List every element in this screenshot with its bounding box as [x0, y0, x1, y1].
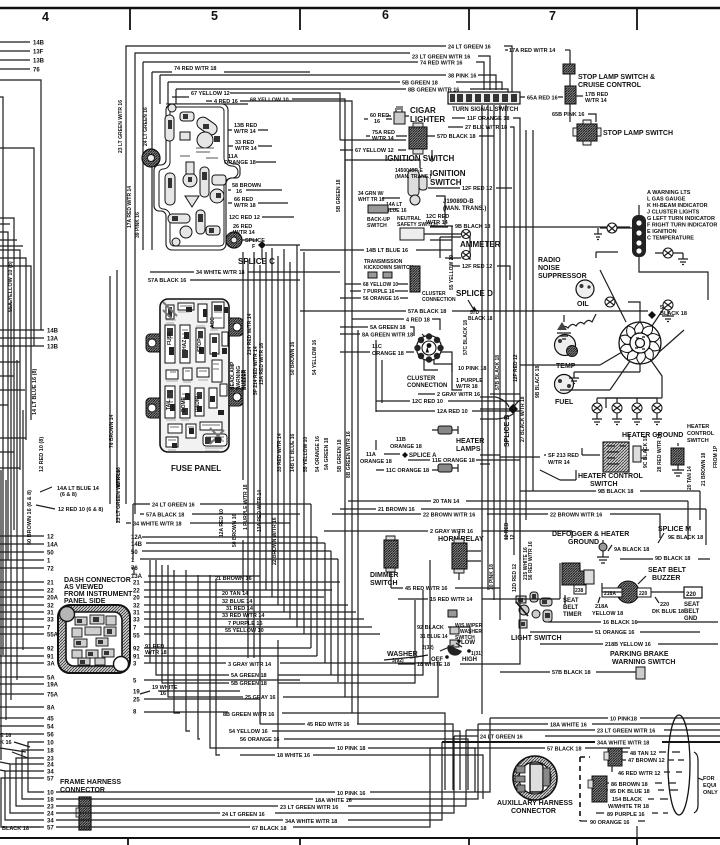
- bulbs bottom row: [592, 398, 662, 425]
- wire stub 13B: [0, 59, 30, 61]
- svg-text:220: 220: [639, 591, 648, 597]
- svg-text:220: 220: [686, 592, 697, 598]
- svg-text:54 ORANGE 16: 54 ORANGE 16: [315, 436, 321, 472]
- svg-text:SWITCH: SWITCH: [367, 223, 387, 229]
- svg-text:K 16: K 16: [0, 740, 12, 746]
- svg-text:11C: 11C: [372, 344, 382, 350]
- wire 34A WHITE WTR 18 lower: [56, 742, 442, 820]
- wire rows mid: [0, 362, 26, 468]
- svg-text:24: 24: [47, 763, 54, 769]
- svg-text:BLACK 18: BLACK 18: [2, 826, 29, 832]
- svg-text:SWITCH: SWITCH: [430, 178, 462, 187]
- defogger ground symbol: [599, 543, 607, 551]
- lower L set: [28, 742, 44, 792]
- verticals left of fuse panel: [110, 270, 117, 523]
- svg-text:32: 32: [47, 604, 54, 610]
- svg-text:L GAS GAUGE: L GAS GAUGE: [647, 197, 686, 203]
- svg-text:7: 7: [549, 9, 556, 23]
- svg-text:67 YELLOW 12: 67 YELLOW 12: [191, 91, 230, 97]
- svg-text:11B: 11B: [396, 437, 406, 443]
- svg-text:54: 54: [47, 725, 54, 731]
- svg-text:BUZZER: BUZZER: [652, 575, 680, 582]
- svg-text:50 BROWN 16 (6 & 8): 50 BROWN 16 (6 & 8): [27, 490, 33, 545]
- svg-text:16: 16: [160, 691, 166, 697]
- svg-text:9E BLACK 18: 9E BLACK 18: [668, 535, 703, 541]
- svg-text:51 ORANGE 16: 51 ORANGE 16: [595, 630, 634, 636]
- svg-text:5B GREEN 18: 5B GREEN 18: [231, 681, 267, 687]
- svg-text:RADIO: RADIO: [195, 396, 201, 412]
- svg-text:65A RED 16: 65A RED 16: [527, 96, 558, 102]
- svg-text:56 ORANGE 16: 56 ORANGE 16: [240, 737, 279, 743]
- svg-text:33: 33: [133, 618, 140, 624]
- svg-text:W/TR 14: W/TR 14: [548, 460, 571, 466]
- connector hatched: [410, 266, 420, 292]
- frame harness connector: [79, 797, 91, 830]
- svg-text:13A: 13A: [131, 574, 143, 580]
- svg-text:56 RED W/TR 16: 56 RED W/TR 16: [528, 541, 534, 580]
- svg-text:27 BLACK W/TR 18: 27 BLACK W/TR 18: [520, 396, 526, 442]
- light switch: [516, 592, 552, 628]
- bulb mid: [605, 297, 615, 307]
- ignition wires: [340, 140, 452, 240]
- svg-text:CONNECTION: CONNECTION: [422, 297, 456, 303]
- svg-text:13A: 13A: [47, 337, 59, 343]
- svg-text:HEATER: HEATER: [456, 438, 484, 445]
- seat belt timer body: [562, 563, 586, 585]
- svg-text:55A: 55A: [47, 633, 59, 639]
- svg-text:20 TAN 14: 20 TAN 14: [433, 499, 460, 505]
- svg-text:18A WHITE 16: 18A WHITE 16: [315, 798, 352, 804]
- svg-text:5A GREEN 18: 5A GREEN 18: [324, 437, 330, 470]
- wire 34 WHITE WTR 18 mid: [126, 522, 290, 524]
- dash rows to central bundle: [131, 537, 338, 576]
- svg-text:23 LT GREEN W/TR 16: 23 LT GREEN W/TR 16: [116, 470, 122, 523]
- neutral safety switch: [400, 228, 424, 240]
- svg-text:23 LT GREEN W/TR 16: 23 LT GREEN W/TR 16: [118, 100, 124, 153]
- harness loop ellipse: [668, 715, 690, 815]
- svg-text:SWITCH: SWITCH: [590, 481, 618, 488]
- cigar lighter symbol: [394, 112, 405, 124]
- svg-text:20 TAN 14: 20 TAN 14: [687, 466, 693, 490]
- wire stub 13B: [0, 345, 44, 347]
- svg-text:(MAN. TRANS.): (MAN. TRANS.): [443, 206, 486, 212]
- svg-text:SUPPRESSOR: SUPPRESSOR: [538, 273, 587, 280]
- svg-text:LOW: LOW: [461, 640, 475, 646]
- svg-text:55 YELLOW 10: 55 YELLOW 10: [225, 628, 264, 634]
- svg-text:SPLICE M: SPLICE M: [658, 526, 691, 533]
- svg-text:5: 5: [211, 9, 218, 23]
- svg-text:YELLOW 18: YELLOW 18: [592, 611, 623, 617]
- wire 38 PINK 16: [160, 75, 496, 104]
- svg-text:91: 91: [47, 655, 54, 661]
- connector small: [448, 610, 457, 617]
- svg-text:13B: 13B: [47, 345, 59, 351]
- svg-text:3A: 3A: [47, 662, 55, 668]
- svg-text:85 DK BLUE 18: 85 DK BLUE 18: [610, 789, 650, 795]
- heater lamp 2: [438, 464, 452, 472]
- svg-text:54 YELLOW 16: 54 YELLOW 16: [312, 340, 318, 375]
- svg-text:90 ORANGE 16: 90 ORANGE 16: [590, 820, 629, 826]
- svg-text:AS VIEWED: AS VIEWED: [64, 584, 103, 591]
- heater lamp 11B: [438, 426, 452, 434]
- svg-text:57A BLACK 18: 57A BLACK 18: [146, 513, 184, 519]
- wire stub 14B: [0, 41, 30, 43]
- svg-text:19A: 19A: [47, 683, 59, 689]
- svg-text:5A GREEN 18: 5A GREEN 18: [370, 325, 406, 331]
- svg-text:9B BLACK 18: 9B BLACK 18: [455, 224, 490, 230]
- svg-text:33 RED W/TR 14: 33 RED W/TR 14: [277, 433, 283, 472]
- wire 23 LT GREEN WTR 16 lower: [56, 730, 466, 806]
- cluster connection gear: [414, 333, 443, 362]
- svg-text:CONNECTOR: CONNECTOR: [60, 787, 105, 794]
- svg-text:220: 220: [660, 602, 669, 608]
- wire 24 LT GREEN 16 mid: [133, 503, 311, 505]
- svg-text:W/TR 18: W/TR 18: [234, 203, 256, 209]
- bulb right: [663, 300, 673, 310]
- svg-text:CIGAR: CIGAR: [410, 106, 436, 115]
- indicator bulb: [607, 223, 617, 233]
- heater control switch: [603, 442, 629, 472]
- svg-text:12 RED 10 (6 & 8): 12 RED 10 (6 & 8): [58, 507, 103, 513]
- svg-text:FUEL: FUEL: [555, 399, 574, 406]
- svg-text:34A WHITE W/TR 18: 34A WHITE W/TR 18: [597, 741, 649, 747]
- svg-text:8B GREEN W/TR 16: 8B GREEN W/TR 16: [223, 712, 274, 718]
- svg-text:SEAT: SEAT: [684, 602, 700, 608]
- brace FOR EQUIPPED ONLY: [694, 752, 703, 813]
- svg-text:TURN SIGNAL SWITCH: TURN SIGNAL SWITCH: [452, 107, 518, 113]
- svg-text:RADIO: RADIO: [538, 257, 561, 264]
- svg-text:13A RED W/TR 16: 13A RED W/TR 16: [259, 343, 265, 385]
- svg-text:W/TR 14: W/TR 14: [233, 230, 256, 236]
- svg-text:23 LT GREEN W/TR 16: 23 LT GREEN W/TR 16: [280, 805, 338, 811]
- dash connector pins: [72, 615, 116, 665]
- svg-text:11C ORANGE 18: 11C ORANGE 18: [386, 468, 429, 474]
- svg-text:BUZZER: BUZZER: [241, 369, 247, 390]
- svg-text:19: 19: [133, 690, 140, 696]
- switch knob left: [142, 149, 160, 167]
- svg-text:92: 92: [47, 647, 54, 653]
- svg-text:10: 10: [47, 741, 54, 747]
- svg-text:21: 21: [133, 581, 140, 587]
- svg-text:25: 25: [133, 698, 140, 704]
- svg-text:218A: 218A: [595, 604, 608, 610]
- svg-text:22: 22: [133, 589, 140, 595]
- svg-text:21: 21: [47, 581, 54, 587]
- svg-text:ONLY: ONLY: [703, 790, 718, 796]
- wire 34A WHITE WTR 18 upper run: [442, 741, 720, 743]
- svg-text:57: 57: [47, 777, 54, 783]
- svg-text:17A RED W/TR 14: 17A RED W/TR 14: [127, 186, 133, 228]
- svg-text:67 BLACK 18: 67 BLACK 18: [252, 826, 287, 832]
- svg-text:FUSE: FUSE: [167, 331, 173, 345]
- svg-text:5B GREEN 18: 5B GREEN 18: [336, 179, 342, 212]
- svg-text:32 BLUE 14: 32 BLUE 14: [222, 599, 253, 605]
- svg-text:10 PINK18: 10 PINK18: [610, 717, 637, 723]
- wire 17A RED WTR 14: [505, 50, 570, 86]
- ammeter terminals: [462, 230, 471, 239]
- svg-text:20: 20: [133, 596, 140, 602]
- svg-text:48 TAN 12: 48 TAN 12: [630, 751, 656, 757]
- svg-text:1(31): 1(31): [471, 651, 483, 657]
- svg-text:BELT: BELT: [684, 609, 700, 615]
- headlamp switch cluster outline: [154, 104, 240, 250]
- svg-text:16: 16: [374, 119, 380, 125]
- svg-text:5B GREEN 18: 5B GREEN 18: [337, 439, 343, 472]
- svg-text:TAIL: TAIL: [166, 399, 172, 410]
- dash pin rows: [144, 582, 380, 634]
- svg-text:8B GREEN W/TR 16: 8B GREEN W/TR 16: [346, 431, 352, 478]
- svg-text:OIL: OIL: [577, 301, 589, 308]
- svg-text:57 BLACK 18: 57 BLACK 18: [547, 747, 582, 753]
- svg-text:W/TR 18: W/TR 18: [145, 650, 167, 656]
- svg-text:24 LT GREEN 16: 24 LT GREEN 16: [448, 45, 491, 51]
- svg-text:GND: GND: [684, 616, 698, 622]
- svg-text:W/WHITE TR 18: W/WHITE TR 18: [608, 804, 649, 810]
- svg-text:24 LT GREEN 16: 24 LT GREEN 16: [143, 107, 149, 146]
- svg-text:18 WHITE 16: 18 WHITE 16: [277, 753, 310, 759]
- svg-text:K HI-BEAM INDICATOR: K HI-BEAM INDICATOR: [647, 203, 708, 209]
- svg-text:68 YELLOW 10: 68 YELLOW 10: [363, 282, 398, 288]
- wires to rotor: [520, 252, 684, 408]
- svg-text:31: 31: [47, 611, 54, 617]
- svg-text:HEATER GROUND: HEATER GROUND: [622, 432, 683, 439]
- svg-text:33 RED W/TR 14: 33 RED W/TR 14: [222, 613, 265, 619]
- right vertical bundle: [482, 105, 526, 714]
- svg-text:5B GREEN 18: 5B GREEN 18: [402, 81, 438, 87]
- svg-text:4: 4: [42, 10, 49, 24]
- svg-text:20 TAN 14: 20 TAN 14: [222, 591, 249, 597]
- svg-text:12: 12: [47, 535, 54, 541]
- wire stub 13F: [0, 50, 30, 52]
- svg-text:FROM 1P: FROM 1P: [713, 445, 719, 468]
- svg-text:KICKDOWN SWITCH: KICKDOWN SWITCH: [364, 265, 414, 271]
- svg-text:12C RED 12: 12C RED 12: [229, 215, 260, 221]
- svg-text:HIGH: HIGH: [462, 657, 477, 663]
- svg-text:50: 50: [131, 550, 138, 556]
- svg-text:CONNECTION: CONNECTION: [407, 383, 447, 389]
- cluster internals: [165, 104, 226, 246]
- svg-text:34 WHITE W/TR 18: 34 WHITE W/TR 18: [133, 522, 182, 528]
- svg-text:HEATER CONTROL: HEATER CONTROL: [578, 473, 644, 480]
- instrument cluster rotor: [618, 322, 661, 364]
- svg-text:12 RED 10 (8): 12 RED 10 (8): [39, 437, 45, 472]
- svg-text:SEAT BELT: SEAT BELT: [648, 567, 687, 574]
- svg-text:C TEMPERATURE: C TEMPERATURE: [647, 236, 694, 242]
- svg-text:76: 76: [33, 68, 40, 74]
- connector 48/47: [608, 748, 622, 766]
- svg-text:10 PINK 18: 10 PINK 18: [489, 564, 495, 590]
- svg-text:14B: 14B: [47, 329, 59, 335]
- svg-text:12D RED 12: 12D RED 12: [512, 564, 518, 592]
- svg-text:STOP: STOP: [197, 338, 203, 352]
- svg-text:34 WHITE W/TR 18: 34 WHITE W/TR 18: [196, 270, 245, 276]
- svg-text:10: 10: [47, 791, 54, 797]
- svg-text:SPLICE B: SPLICE B: [504, 415, 511, 447]
- svg-text:4 RED 18: 4 RED 18: [406, 318, 430, 324]
- svg-text:STOP LAMP SWITCH &: STOP LAMP SWITCH &: [578, 74, 655, 81]
- svg-text:32: 32: [133, 604, 140, 610]
- svg-text:12: 12: [510, 534, 516, 540]
- svg-text:27 BLK W/TR 18: 27 BLK W/TR 18: [465, 125, 507, 131]
- svg-text:2(32): 2(32): [422, 645, 434, 651]
- wire 57A BLACK 18 mid: [140, 513, 300, 515]
- svg-text:74 RED W/TR 16: 74 RED W/TR 16: [420, 61, 462, 67]
- svg-text:LAMPS: LAMPS: [456, 446, 481, 453]
- svg-text:21 BROWN 16: 21 BROWN 16: [378, 507, 415, 513]
- svg-text:57B BLACK 18: 57B BLACK 18: [552, 670, 591, 676]
- svg-text:NOISE: NOISE: [538, 265, 560, 272]
- svg-text:14B LT BLUE 16: 14B LT BLUE 16: [366, 248, 408, 254]
- svg-text:CONNECTOR: CONNECTOR: [511, 808, 556, 815]
- svg-text:45: 45: [47, 717, 54, 723]
- svg-text:76: 76: [131, 566, 138, 572]
- svg-text:DIMMER: DIMMER: [370, 572, 398, 579]
- svg-text:11E ORANGE 18: 11E ORANGE 18: [432, 458, 475, 464]
- seat belt gnd connector: [684, 587, 702, 598]
- wire stub 13A: [0, 337, 44, 339]
- svg-text:(6 & 8): (6 & 8): [60, 492, 77, 498]
- bottom center tick wire: [636, 826, 638, 838]
- svg-text:14A: 14A: [47, 543, 59, 549]
- svg-text:75A: 75A: [47, 693, 59, 699]
- svg-text:8A: 8A: [47, 706, 55, 712]
- svg-text:CONTROL: CONTROL: [687, 431, 715, 437]
- svg-text:65B PINK 16: 65B PINK 16: [552, 112, 584, 118]
- svg-text:13B: 13B: [33, 59, 45, 65]
- svg-text:55 YELLOW 10: 55 YELLOW 10: [303, 437, 309, 472]
- svg-text:38 PINK 16: 38 PINK 16: [448, 74, 476, 80]
- svg-text:28 RED W/TR 14: 28 RED W/TR 14: [657, 433, 663, 472]
- svg-text:DK BLUE 18: DK BLUE 18: [652, 609, 684, 615]
- svg-text:31 BLUE 14: 31 BLUE 14: [420, 634, 448, 640]
- svg-text:7 PURPLE 16: 7 PURPLE 16: [363, 289, 395, 295]
- wire drops to bottom rows: [150, 560, 278, 755]
- auxiliary harness connector: [513, 756, 557, 800]
- connector 86/85: [592, 776, 607, 802]
- svg-text:34: 34: [47, 819, 54, 825]
- wire 24 LT GREEN 16 lower: [56, 736, 454, 813]
- svg-text:21 BROWN 16: 21 BROWN 16: [215, 576, 252, 582]
- ground under rotor: [574, 364, 640, 378]
- svg-text:W/TR 18: W/TR 18: [456, 384, 478, 390]
- wire 18A WHITE 16 upper run: [478, 723, 720, 725]
- svg-text:89 PURPLE 16: 89 PURPLE 16: [607, 812, 645, 818]
- wire 74 RED WTR 16: [143, 62, 484, 90]
- central vertical wires: [242, 252, 244, 592]
- svg-text:CRUISE CONTROL: CRUISE CONTROL: [578, 82, 642, 89]
- svg-text:22: 22: [47, 589, 54, 595]
- fuse slots: [165, 302, 228, 447]
- svg-text:TIMER: TIMER: [563, 612, 582, 618]
- splice B junction: [508, 404, 518, 414]
- svg-text:33: 33: [47, 618, 54, 624]
- svg-text:54 YELLOW 16: 54 YELLOW 16: [229, 729, 268, 735]
- svg-text:218B YELLOW 16: 218B YELLOW 16: [605, 642, 651, 648]
- svg-text:34A WHITE W/TR 18: 34A WHITE W/TR 18: [285, 819, 337, 825]
- svg-text:STOP LAMP SWITCH: STOP LAMP SWITCH: [603, 130, 673, 137]
- svg-text:WHT TR 16: WHT TR 16: [358, 197, 385, 203]
- svg-text:7 PURPLE 16: 7 PURPLE 16: [228, 621, 263, 627]
- 220 connector: [637, 588, 651, 597]
- svg-text:86 BROWN 18: 86 BROWN 18: [611, 782, 648, 788]
- wire 8B GREEN WTR 16: [176, 89, 508, 104]
- svg-text:12A RED 10: 12A RED 10: [437, 409, 468, 415]
- svg-text:14 LT BLUE 16 (8): 14 LT BLUE 16 (8): [32, 368, 38, 415]
- svg-text:SWITCH: SWITCH: [687, 438, 709, 444]
- stop lamp cruise connector: [563, 64, 575, 74]
- svg-text:11A: 11A: [366, 452, 376, 458]
- svg-text:56: 56: [47, 733, 54, 739]
- wire 24 LT GREEN 16 upper run: [454, 735, 720, 737]
- seat belt buzzer: [617, 581, 639, 603]
- svg-text:2 GRAY W/TR 16: 2 GRAY W/TR 16: [437, 392, 480, 398]
- svg-text:PARKING BRAKE: PARKING BRAKE: [610, 651, 669, 658]
- svg-text:AMMETER: AMMETER: [460, 240, 501, 249]
- svg-text:GROUND: GROUND: [568, 539, 599, 546]
- svg-text:13F: 13F: [33, 50, 44, 56]
- svg-text:9B BLACK 18: 9B BLACK 18: [598, 489, 633, 495]
- dashed equipment box: [580, 757, 590, 821]
- ground right: [678, 253, 688, 265]
- svg-text:16: 16: [236, 189, 242, 195]
- wire 24 LT GREEN 16 top: [126, 46, 512, 504]
- svg-text:31 RED 14: 31 RED 14: [226, 606, 254, 612]
- svg-text:J CLUSTER LIGHTS: J CLUSTER LIGHTS: [647, 210, 700, 216]
- noise suppressor coil: [560, 314, 596, 330]
- svg-text:3 GRAY W/TR 14: 3 GRAY W/TR 14: [228, 662, 272, 668]
- svg-text:238: 238: [575, 588, 584, 594]
- svg-text:24 LT GREEN 16: 24 LT GREEN 16: [222, 812, 265, 818]
- parking brake switch: [636, 667, 645, 679]
- svg-text:20A: 20A: [47, 596, 59, 602]
- svg-text:2 GRAY W/TR 16: 2 GRAY W/TR 16: [430, 529, 473, 535]
- wire SF213: [500, 448, 600, 480]
- svg-text:J19089D-B: J19089D-B: [443, 199, 474, 205]
- wire 5B GREEN 18: [168, 82, 502, 104]
- wire 10 PINK18 upper run: [490, 717, 720, 719]
- svg-text:18A WHITE 16: 18A WHITE 16: [550, 723, 587, 729]
- left vertical feeders: [1, 300, 23, 760]
- svg-text:31: 31: [133, 611, 140, 617]
- switch knob lower: [226, 232, 242, 248]
- svg-text:CLUSTER: CLUSTER: [407, 376, 436, 382]
- svg-text:8A GREEN W/TR 18: 8A GREEN W/TR 18: [362, 333, 413, 339]
- dimmer switch: [384, 540, 398, 568]
- dash connector body: [58, 605, 130, 673]
- svg-text:57A BLACK 18: 57A BLACK 18: [408, 309, 446, 315]
- svg-text:12F RED 12: 12F RED 12: [462, 186, 492, 192]
- svg-text:55: 55: [133, 634, 140, 640]
- svg-text:DEFOGGER & HEATER: DEFOGGER & HEATER: [552, 531, 629, 538]
- svg-text:IGNITION: IGNITION: [430, 169, 466, 178]
- svg-text:24: 24: [47, 812, 54, 818]
- svg-text:BELT: BELT: [563, 605, 579, 611]
- wire 18A WHITE 16 lower: [56, 724, 478, 799]
- svg-text:HAZ: HAZ: [182, 340, 188, 350]
- horn relay: [452, 543, 467, 569]
- svg-text:HEATER: HEATER: [687, 424, 709, 430]
- svg-text:154 BLACK: 154 BLACK: [612, 797, 642, 803]
- svg-text:ORANGE 18: ORANGE 18: [360, 459, 392, 465]
- svg-text:9C BLACK 18: 9C BLACK 18: [643, 436, 649, 468]
- wire 10 PINK 16 lower: [56, 718, 490, 792]
- svg-text:50: 50: [47, 551, 54, 557]
- heater ground connector: [671, 448, 684, 465]
- svg-text:10 PINK 16: 10 PINK 16: [337, 791, 365, 797]
- svg-text:ORANGE 18: ORANGE 18: [390, 444, 422, 450]
- wire 39 pink vertical: [143, 72, 152, 250]
- svg-text:72: 72: [47, 567, 54, 573]
